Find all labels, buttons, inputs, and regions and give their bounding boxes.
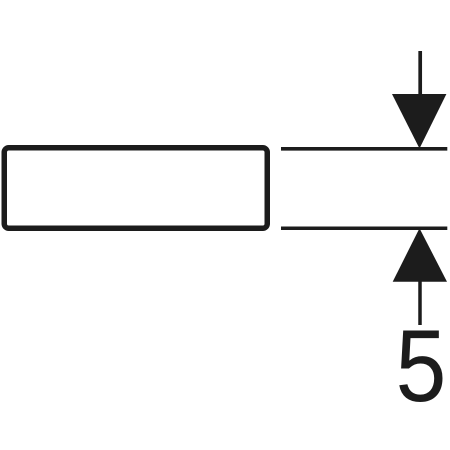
top arrow leader [418,51,422,100]
bottom extension line [281,226,447,230]
svg-text:5: 5 [396,308,447,423]
top arrowhead [392,94,446,149]
top extension line [281,147,447,151]
bottom arrow leader [418,280,422,325]
bottom arrowhead [393,228,447,282]
panel outline [4,148,267,229]
